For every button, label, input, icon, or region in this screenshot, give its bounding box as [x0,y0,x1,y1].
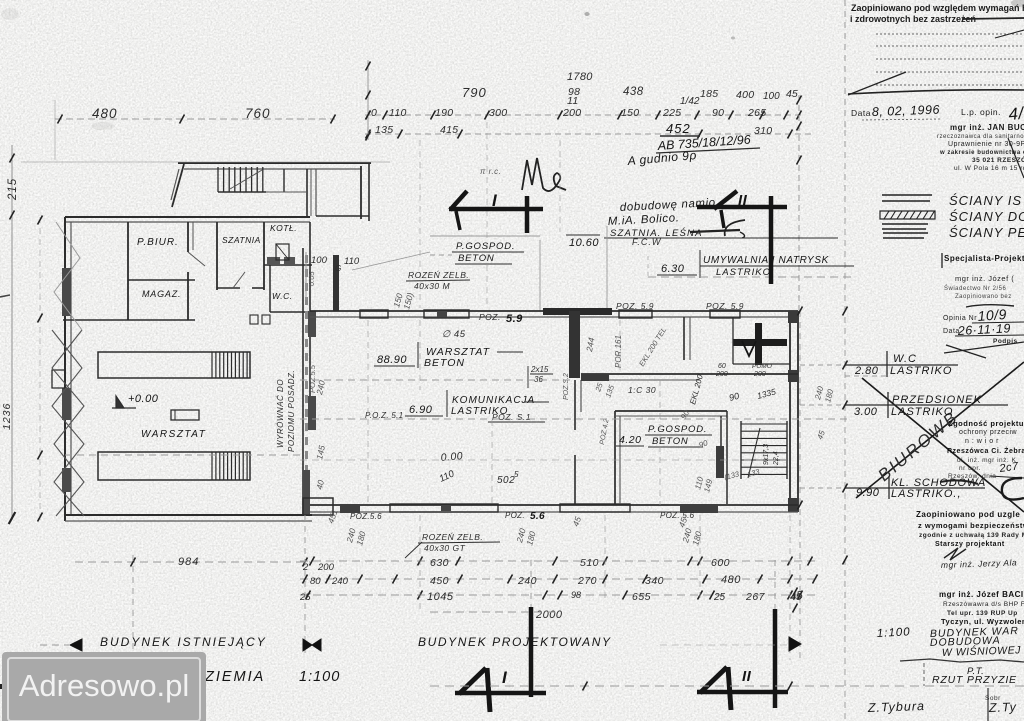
scan noise top-left [1,0,1024,130]
svg-text:10.60: 10.60 [569,237,599,249]
top wall beam rect 3 [619,310,652,318]
construction line from P.GOSPOD label down [539,240,541,311]
wall piece x284 [283,169,285,192]
svg-text:P.BIUR.: P.BIUR. [137,237,179,248]
left wall window pillars [62,268,71,316]
left edge tick y297 [0,295,10,297]
vertical dashed lines bottom dims [132,555,134,650]
svg-text:265: 265 [747,107,766,119]
dark dash mark bottom left edge [0,684,16,689]
svg-text:Rzeszówawra d/s BHP Fr: Rzeszówawra d/s BHP Fr [943,601,1024,608]
svg-text:POZ.: POZ. [505,511,525,520]
svg-text:240: 240 [331,576,349,587]
svg-text:W.C: W.C [893,353,917,365]
signature C swoosh [1002,478,1024,500]
svg-text:110: 110 [344,256,360,267]
svg-text:0.05: 0.05 [307,271,316,286]
svg-text:600: 600 [711,557,730,569]
svg-text:6.30: 6.30 [661,263,685,275]
svg-text:Zaopiniowano pod względem wyma: Zaopiniowano pod względem wymagań hi [851,3,1024,13]
left wall bump [52,370,65,388]
dimension line top-left 480/760 [55,118,335,120]
bottom beam rect 1 [390,504,498,512]
dotted signature lines [876,33,1024,35]
signature scribble M [522,158,566,191]
svg-text:Opinia Nr: Opinia Nr [943,315,977,322]
vertical dashed x799 [798,95,800,311]
svg-text:5: 5 [514,470,519,479]
svg-text:Starszy projektant: Starszy projektant [935,541,1005,548]
svg-text:200: 200 [715,371,728,378]
construction line x607 extended [606,280,608,311]
svg-text:40x30 M: 40x30 M [414,281,451,291]
svg-text:RZUT PRZYZIE: RZUT PRZYZIE [932,674,1017,686]
svg-text:11: 11 [567,95,579,107]
p.gospod room walls [614,411,616,504]
long construction line top of building [21,161,390,163]
svg-text:P.GOSPOD.: P.GOSPOD. [648,424,707,435]
horizontal dashed through stamp tables [800,364,845,366]
svg-text:II: II [742,668,752,685]
demolition zigzag left wall [52,330,84,516]
svg-text:∅ 45: ∅ 45 [442,329,466,340]
svg-text:SZATNIA: SZATNIA [222,235,261,245]
svg-text:POZ. 5.6: POZ. 5.6 [660,511,695,520]
svg-text:PRZEDSIONEK: PRZEDSIONEK [892,394,982,406]
interior wall x575 lower part [574,380,576,430]
svg-text:200: 200 [562,107,581,119]
dark wall bar between door openings [333,255,339,311]
umywalnia horizontal wall y374 [581,373,798,375]
svg-text:nr upr.: nr upr. [959,465,981,472]
dimension row y115 [365,114,805,116]
interior wall below magaz y320 [63,319,195,321]
dimension row y579 [300,578,820,580]
svg-text:150: 150 [621,107,639,119]
svg-text:ŚCIANY PE: ŚCIANY PE [949,225,1024,240]
svg-text:Świadectwo Nr 2/56: Świadectwo Nr 2/56 [944,284,1007,292]
svg-text:2x15: 2x15 [530,365,549,374]
svg-text:98: 98 [571,590,581,600]
arrow left existing [70,639,82,651]
svg-text:4/: 4/ [1008,104,1024,124]
section symbol II bottom [773,609,778,708]
svg-text:1:100: 1:100 [877,626,911,640]
left dim marks x40 [39,217,41,520]
svg-text:POZ.: POZ. [479,312,501,322]
svg-text:LASTRIKO: LASTRIKO [891,406,953,418]
svg-text:W.C.: W.C. [272,291,293,301]
bottom beam rect 2 [560,504,630,512]
svg-text:Zgodność projektu: Zgodność projektu [948,419,1024,428]
svg-text:POZ.S.2: POZ.S.2 [563,373,570,400]
svg-text:630: 630 [430,557,449,569]
svg-text:790: 790 [462,85,487,100]
svg-text:I: I [492,191,498,210]
interior wall x128 [127,222,129,320]
projected building top wall y311 [310,310,798,312]
svg-text:2000: 2000 [535,609,563,621]
svg-text:267: 267 [745,591,766,603]
datum box [171,410,199,420]
svg-text:110: 110 [389,107,407,119]
umywalnia divider wall x684 [683,317,685,360]
right outer wall projected [789,317,791,505]
section symbol I bottom [529,607,534,697]
legend bar lines solid 3 [883,232,928,234]
kotl room walls [264,264,312,266]
svg-text:BETON: BETON [458,253,495,264]
svg-text:1045: 1045 [427,591,454,603]
svg-text:WYRÓWNAĆ DO: WYRÓWNAĆ DO [276,379,285,448]
svg-text:Uprawnienie nr 30-9P: Uprawnienie nr 30-9P [948,141,1024,148]
svg-text:Zaopiniowano pod uzgle: Zaopiniowano pod uzgle [916,510,1020,519]
vertical dim line x368 [367,60,369,140]
bottom right table lines [987,688,989,721]
svg-text:Tel upr. 139 RUP Up: Tel upr. 139 RUP Up [947,610,1018,617]
svg-text:LASTRIKO.,: LASTRIKO., [891,488,962,500]
svg-text:mgr inż. Józef (: mgr inż. Józef ( [955,274,1014,283]
szatnia door swing [233,272,245,288]
svg-text:rzeczoznawca dla sanitarnohig.: rzeczoznawca dla sanitarnohig. [937,134,1024,140]
vertical dashed connectors top band [419,140,421,308]
door marks bottom wall [250,315,258,324]
svg-text:BETON: BETON [424,357,465,369]
svg-text:480: 480 [92,106,118,121]
svg-text:984: 984 [178,556,199,568]
svg-text:I: I [502,668,508,687]
svg-text:z wymogami bezpieczeństwa: z wymogami bezpieczeństwa [918,521,1024,530]
svg-text:45: 45 [786,88,798,100]
bottom wall projected building [310,504,798,506]
boiler hatched boxes [267,257,280,266]
existing-projected boundary wall x303-310 [302,248,304,515]
boiler box with X kotl [276,244,289,260]
svg-text:60: 60 [718,363,726,370]
svg-text:190: 190 [435,107,453,119]
dimension 215 vertical [11,145,13,520]
svg-text:w zakresie budownictwa ogólneg: w zakresie budownictwa ogólnego p [939,150,1024,156]
svg-text:415: 415 [440,124,458,136]
svg-text:Data: Data [851,108,871,118]
bottom wall dark fills [303,498,333,515]
svg-text:L.p. opin.: L.p. opin. [961,107,1001,117]
svg-text:40x30 GT: 40x30 GT [424,543,466,553]
interior wall x190 with door [187,222,189,252]
svg-text:225: 225 [662,107,681,119]
svg-text:438: 438 [623,86,644,98]
watermark Adresowo.pl [2,652,206,721]
stair arrow [748,428,760,478]
legend bar hatched [880,211,935,219]
svg-text:510: 510 [580,557,599,569]
shower room lines [732,317,734,364]
svg-text:200: 200 [753,371,766,378]
svg-text:π r.c.: π r.c. [480,167,501,176]
top wall beam rect 4 [710,310,740,318]
svg-text:0.00: 0.00 [440,450,463,464]
vertical line x607 annotation [606,226,608,280]
svg-text:ŚCIANY DO: ŚCIANY DO [949,209,1024,224]
warsztat bench 2 [98,452,250,480]
bottom wall existing building [65,514,312,516]
dimension row y594 [300,594,820,596]
interior wall x569-581 dark [569,311,580,378]
section symbol II top [714,191,737,209]
svg-text:KOMUNIKACJA: KOMUNIKACJA [452,395,535,406]
svg-text:2.80: 2.80 [854,365,879,377]
svg-text:22,4: 22,4 [773,451,780,466]
dimension row y561 [75,561,310,563]
vertical dashed x845 [844,0,846,130]
svg-text:ZIEMIA: ZIEMIA [204,669,265,685]
svg-text:BUDYNEK ISTNIEJĄCY: BUDYNEK ISTNIEJĄCY [100,635,267,649]
big X cross [856,362,1024,498]
staircase hatch existing building [217,167,219,192]
svg-text:760: 760 [245,106,271,121]
svg-text:ŚCIANY IS: ŚCIANY IS [949,193,1022,208]
szatnia walls [216,222,218,290]
svg-text:ochrony przeciw: ochrony przeciw [959,429,1018,436]
top wall beam rect 1 [360,310,388,318]
svg-text:1/42: 1/42 [680,96,700,107]
svg-text:BUDYNEK PROJEKTOWANY: BUDYNEK PROJEKTOWANY [418,635,612,649]
dimension row y134 [365,133,815,135]
svg-text:LASTRIKO: LASTRIKO [716,267,771,278]
left outer wall existing building [64,217,66,521]
svg-text:400: 400 [736,89,754,101]
main horizontal wall y217 [65,216,310,218]
svg-text:88.90: 88.90 [377,354,407,366]
svg-text:310: 310 [754,125,772,137]
svg-text:9x17,3: 9x17,3 [763,444,770,465]
svg-text:POZ.5.5: POZ.5.5 [308,364,317,393]
svg-text:5.6: 5.6 [530,511,545,522]
svg-text:II: II [738,192,748,209]
svg-text:655: 655 [632,591,651,603]
svg-text:300: 300 [489,107,507,119]
svg-text:mgr inż. JAN BUC: mgr inż. JAN BUC [950,123,1024,132]
svg-text:3.00: 3.00 [854,406,878,418]
svg-text:Rzeszówca Ci. Żebracki: Rzeszówca Ci. Żebracki [947,447,1024,455]
scan grain overlay [0,0,1,1]
svg-text:+0.00: +0.00 [128,393,159,405]
boundary hatch dash band [305,255,308,498]
T pillar top wall [543,308,612,315]
svg-text:POZ. 5.9: POZ. 5.9 [616,301,654,311]
svg-text:5.9: 5.9 [506,313,523,325]
svg-text:215: 215 [7,178,19,201]
svg-text:MAGAZ.: MAGAZ. [142,289,181,299]
svg-text:Z.Ty: Z.Ty [988,700,1018,715]
magaz top wall y280 [128,279,195,281]
svg-text:9.90: 9.90 [856,487,880,499]
legend bar lines solid 1 [882,194,932,196]
svg-text:POZ.5.6: POZ.5.6 [350,512,382,521]
svg-text:ROZEŃ ZELB.: ROZEŃ ZELB. [422,532,483,542]
staircase projected [740,421,742,479]
stamp slanted bottom border [944,342,1024,353]
svg-text:6.90: 6.90 [409,404,433,416]
solid line y91 [848,90,1024,94]
warsztat bench 1 [98,352,250,378]
svg-text:1780: 1780 [567,71,593,83]
arrow right projected [789,637,801,651]
svg-text:POMO: POMO [752,363,772,370]
svg-text:502: 502 [497,475,515,486]
section symbol I top [450,191,467,210]
svg-text:1:100: 1:100 [299,669,340,685]
svg-text:135: 135 [375,124,393,136]
svg-text:450: 450 [430,575,449,587]
legend bar lines solid 2 [882,223,928,225]
svg-text:UMYWALNIA I NATRYSK: UMYWALNIA I NATRYSK [703,255,830,266]
svg-text:36: 36 [534,375,543,384]
svg-text:BETON: BETON [652,436,689,447]
svg-text:340: 340 [645,575,664,587]
svg-text:P.GOSPOD.: P.GOSPOD. [456,241,515,252]
top wall beam rect 2 [424,310,469,318]
svg-text:452: 452 [666,121,691,136]
svg-text:i zdrowotnych bez zastrzeżeń: i zdrowotnych bez zastrzeżeń [850,14,976,24]
svg-text:mgr inż. Józef BACIE: mgr inż. Józef BACIE [939,590,1024,599]
svg-text:4.20: 4.20 [619,434,641,446]
shower cross symbol [733,339,787,346]
existing building top section walls [178,162,371,164]
wc walls [269,265,271,312]
svg-text:ul. W Pola 16 m 15 rd.4: ul. W Pola 16 m 15 rd.4 [954,165,1024,172]
bowtie marker [303,639,312,651]
svg-text:Zaopiniowano bez: Zaopiniowano bez [955,294,1012,300]
svg-text:WARSZTAT: WARSZTAT [141,429,206,440]
V mark umywalnia [742,341,756,356]
svg-text:2: 2 [302,562,309,573]
svg-text:100: 100 [763,91,780,102]
svg-text:25: 25 [713,592,726,603]
svg-text:185: 185 [700,88,718,100]
svg-text:n : w i o r: n : w i o r [965,438,999,445]
svg-text:80: 80 [310,576,321,587]
svg-text:POZIOMU POSADZ.: POZIOMU POSADZ. [287,370,296,452]
svg-text:8, 02, 1996: 8, 02, 1996 [872,103,941,119]
svg-text:LASTRIKO: LASTRIKO [890,365,952,377]
svg-text:1:C 30: 1:C 30 [628,385,656,395]
svg-text:POZ. 5.9: POZ. 5.9 [706,301,744,311]
svg-text:KOTŁ.: KOTŁ. [270,223,297,233]
svg-text:200: 200 [317,562,335,573]
svg-text:POR.161: POR.161 [614,335,623,368]
svg-text:zgodnie z uchwałą 139 Rady Mi: zgodnie z uchwałą 139 Rady Mi [919,532,1024,539]
svg-text:1236: 1236 [1,403,13,430]
svg-text:270: 270 [577,575,597,587]
dashed construction lines plan [300,418,850,420]
svg-text:ROZEŃ ZELB.: ROZEŃ ZELB. [408,270,469,280]
svg-text:0: 0 [371,107,377,119]
svg-text:480: 480 [721,574,741,586]
dashed line y686 [430,685,1024,687]
svg-text:Specjalista-Projektant: Specjalista-Projektant [944,254,1024,263]
svg-text:240: 240 [517,575,537,587]
svg-text:G: G [335,264,342,273]
svg-text:Z.Tybura: Z.Tybura [867,699,926,715]
svg-text:90: 90 [712,107,724,119]
svg-text:POZ. S.1: POZ. S.1 [492,412,531,422]
svg-text:100: 100 [311,255,328,266]
